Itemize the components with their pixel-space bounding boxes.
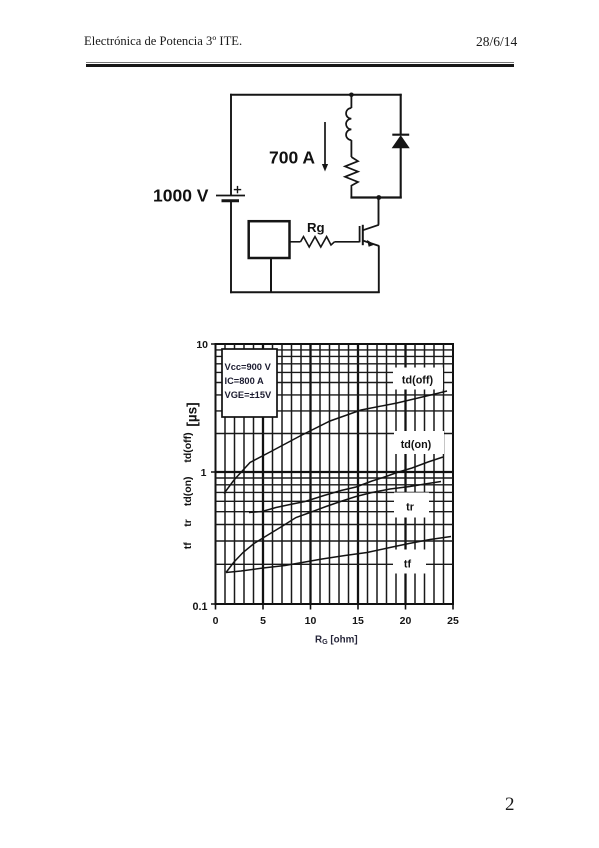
IGBT Q1 collector diagonal <box>363 225 379 230</box>
current arrow 700A shaft <box>324 122 326 165</box>
svg-text:RG [ohm]: RG [ohm] <box>315 635 358 647</box>
curve td(on) <box>249 457 443 513</box>
chart vertical gridlines thick (5 ohm steps) <box>263 344 406 604</box>
svg-text:IC=800 A: IC=800 A <box>225 376 264 386</box>
header date <box>476 34 517 50</box>
driver box <box>249 221 290 258</box>
wire emitter vertical <box>378 246 380 294</box>
svg-text:td(off): td(off) <box>182 432 194 462</box>
header double rule <box>86 62 514 64</box>
wire bottom horizontal <box>230 291 380 293</box>
svg-text:0: 0 <box>213 615 219 627</box>
svg-text:5: 5 <box>260 615 266 627</box>
IGBT Q1 gate bar <box>359 226 361 242</box>
svg-text:Rg: Rg <box>307 220 325 235</box>
svg-text:tr: tr <box>182 519 194 527</box>
node junction dot (top of load branch) <box>349 93 354 98</box>
legend box Vcc/IC/VGE <box>222 349 277 417</box>
label box tr <box>394 493 429 518</box>
svg-text:tf: tf <box>182 542 194 549</box>
svg-text:0.1: 0.1 <box>192 601 207 613</box>
wire load branch top <box>350 95 352 108</box>
wire diode branch upper <box>400 94 402 135</box>
wire left vertical (top of battery) <box>230 94 232 196</box>
chart plot border <box>216 344 454 604</box>
CHART <box>182 339 459 646</box>
wire left vertical (below battery) <box>230 201 232 293</box>
resistor R load zigzag <box>345 157 358 189</box>
wire collector vertical <box>378 198 380 225</box>
svg-text:tf: tf <box>404 559 412 571</box>
wire node horizontal rail <box>350 196 401 198</box>
battery V1 bottom plate <box>222 199 240 202</box>
resistor Rg zigzag <box>301 237 335 247</box>
IGBT Q1 body bar <box>362 225 364 245</box>
curve tf <box>226 537 451 573</box>
svg-text:10: 10 <box>305 615 317 627</box>
wire resistor to node rail <box>350 189 352 198</box>
diode D anode triangle (pointing up) <box>393 136 409 148</box>
IGBT Q1 emitter diagonal <box>363 241 379 246</box>
inductor L <box>346 108 351 140</box>
curve td(off) <box>224 391 447 494</box>
svg-text:[µs]: [µs] <box>185 402 200 426</box>
svg-text:td(off): td(off) <box>402 375 434 387</box>
chart gridline y=1 thick <box>216 471 454 473</box>
chart y axis ticks <box>211 344 216 604</box>
svg-text:tr: tr <box>406 502 415 514</box>
wire Rg to gate <box>335 241 360 243</box>
chart x axis ticks <box>216 604 454 610</box>
wire inductor to resistor <box>350 140 352 157</box>
wire driver box bottom to ground rail <box>270 258 272 293</box>
svg-text:VGE=±15V: VGE=±15V <box>225 390 273 400</box>
header left text <box>84 34 242 49</box>
svg-text:1: 1 <box>201 467 207 479</box>
svg-text:25: 25 <box>447 615 459 627</box>
curve tr <box>226 482 441 573</box>
chart vertical gridlines thin (1 ohm steps) <box>225 344 444 604</box>
label box td(on) <box>394 431 444 454</box>
svg-text:15: 15 <box>352 615 364 627</box>
svg-text:td(on): td(on) <box>401 439 432 451</box>
svg-text:1000 V: 1000 V <box>153 185 209 205</box>
label box tf <box>393 550 426 574</box>
svg-text:20: 20 <box>400 615 412 627</box>
current arrow head <box>322 164 328 172</box>
battery V1 top plate <box>216 195 245 197</box>
svg-text:700 A: 700 A <box>269 148 315 168</box>
svg-text:10: 10 <box>196 339 208 351</box>
battery plus sign <box>234 186 241 193</box>
diode D cathode bar <box>392 134 409 136</box>
page number <box>505 794 515 816</box>
wire driver box to Rg <box>290 241 301 243</box>
wire top horizontal <box>230 94 402 96</box>
wire diode branch lower <box>400 148 402 199</box>
svg-text:Vcc=900 V: Vcc=900 V <box>225 362 272 372</box>
label box td(off) <box>393 368 443 390</box>
svg-text:td(on): td(on) <box>182 476 194 506</box>
node dot collector junction <box>376 195 381 200</box>
chart horizontal log gridlines <box>216 350 454 564</box>
IGBT Q1 emitter arrow <box>367 240 375 247</box>
